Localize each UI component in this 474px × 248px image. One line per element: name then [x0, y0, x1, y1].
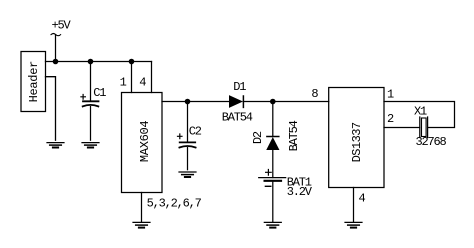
wire battery to ground — [272, 181, 274, 222]
diode D2 BAT54 — [251, 120, 301, 151]
svg-text:4: 4 — [139, 75, 146, 89]
wire D2 cathode up to VCC2 rail — [272, 102, 274, 137]
wire header pin2 to ground — [46, 77, 56, 141]
wire MAX604 pin4 — [151, 62, 153, 93]
wire C2 top — [187, 102, 189, 142]
svg-text:MAX604: MAX604 — [138, 121, 152, 163]
svg-text:2: 2 — [387, 112, 394, 126]
svg-text:BAT54: BAT54 — [222, 111, 253, 125]
crystal X1 32768 — [414, 105, 447, 149]
+5V supply symbol — [51, 19, 71, 36]
capacitor C1 (polarized) — [81, 86, 106, 107]
svg-text:8: 8 — [311, 87, 318, 101]
wire D2 anode to battery — [272, 150, 274, 178]
svg-text:Header: Header — [27, 61, 41, 103]
wire MAX604 output to D1 anode — [162, 101, 229, 103]
svg-text:BAT54: BAT54 — [287, 120, 301, 151]
wire +5V down to node — [55, 35, 57, 62]
svg-text:5,3,2,6,7: 5,3,2,6,7 — [147, 197, 202, 211]
wire C1 bottom to ground — [90, 107, 92, 141]
ground (MAX604) — [133, 222, 150, 227]
wire DS1337 pin4 to ground — [353, 188, 355, 222]
junction node +5V — [53, 59, 59, 65]
capacitor C2 (polarized) — [178, 125, 202, 148]
wire DS1337 pin2 to crystal left — [384, 127, 420, 129]
wire VCC rail (header pin1 to MAX604 pin4) — [46, 61, 152, 63]
junction node C2 tap — [185, 99, 191, 105]
junction node D2 tap — [270, 99, 276, 105]
connector J1 Header — [21, 52, 46, 112]
ground (battery) — [264, 222, 281, 227]
ground (header pin2) — [47, 143, 64, 148]
ground (C1) — [82, 143, 99, 148]
RTC U2 DS1337 — [329, 88, 384, 188]
wire MAX604 ground pins to ground — [141, 193, 143, 222]
svg-text:D2: D2 — [251, 131, 265, 144]
svg-text:3.2V: 3.2V — [287, 185, 313, 199]
wire DS1337 pin1 to crystal right — [384, 102, 455, 128]
junction node MAX604 pin1 tap — [129, 59, 135, 65]
wire C2 bottom to ground — [187, 148, 189, 170]
wire MAX604 pin1 — [131, 62, 133, 93]
svg-text:D1: D1 — [233, 80, 246, 94]
voltage regulator U1 MAX604 — [122, 93, 163, 193]
svg-text:4: 4 — [358, 191, 365, 205]
junction node C1 tap — [88, 59, 94, 65]
svg-text:+5V: +5V — [51, 19, 71, 33]
battery BAT1 3.2V — [259, 170, 313, 200]
svg-text:32768: 32768 — [416, 135, 447, 149]
svg-text:DS1337: DS1337 — [350, 122, 364, 162]
ground (C2) — [179, 172, 196, 177]
ground (DS1337 pin4) — [345, 222, 362, 227]
diode D1 BAT54 — [222, 80, 253, 125]
svg-text:1: 1 — [387, 88, 394, 102]
svg-text:C1: C1 — [93, 86, 106, 100]
svg-text:C2: C2 — [189, 125, 202, 139]
wire D1 cathode to DS1337 pin8 — [243, 101, 328, 103]
svg-text:1: 1 — [120, 75, 127, 89]
wire C1 top — [90, 62, 92, 101]
svg-text:X1: X1 — [414, 105, 427, 119]
